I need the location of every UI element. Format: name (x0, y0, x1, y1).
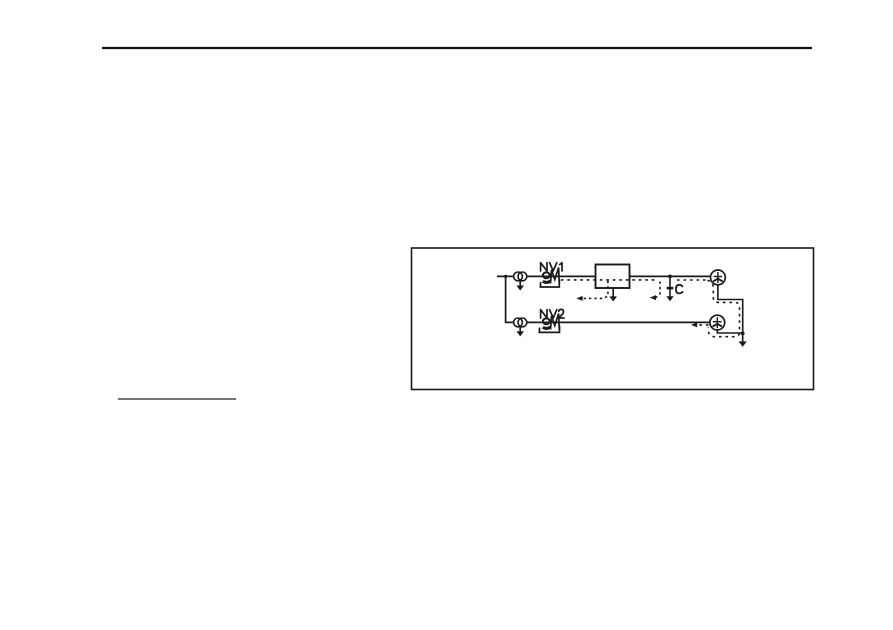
figure frame (412, 248, 814, 390)
label NV1 (541, 263, 562, 271)
wire: top feeder stub (497, 275, 514, 277)
wire: left bus vertical (506, 276, 514, 322)
dashed arrowhead left (cap branch) (650, 295, 656, 300)
dashed branch down inside box (582, 281, 608, 299)
ground arrow under T1 (516, 281, 524, 291)
device box U1 (596, 265, 630, 289)
dashed loop around A1 down right side (708, 280, 740, 336)
dashed branch down before cap (656, 282, 660, 298)
dashed arrowhead left (box branch) (576, 296, 582, 301)
node: earth bus junction (741, 332, 745, 336)
transformer T2 (double circle) (514, 318, 527, 327)
ground arrow earth bus (739, 341, 747, 347)
label NV2 (541, 309, 564, 318)
fuse NV1 scribble (543, 268, 560, 284)
dashed wire cap to A1 (677, 279, 708, 281)
ground arrow under U1 (609, 288, 617, 301)
dashed current path: top row (561, 280, 740, 337)
dashed return on bottom wire (697, 324, 709, 326)
capacitor C (666, 276, 673, 301)
transformer T1 (double circle) (514, 272, 527, 281)
wire: A2 drop to earth bus (717, 330, 742, 333)
node: feeder junction (504, 275, 507, 278)
ground arrow under T2 (516, 327, 524, 337)
page top rule (102, 47, 812, 49)
fuse NV2 holder (open-top box) (539, 325, 559, 332)
arrester A2 (circle) (710, 315, 725, 330)
wire: bottom row NV2 to arrester A2 (527, 321, 710, 323)
wire: A1 drop to earth bus (718, 285, 743, 342)
dashed arrowhead left (bottom return) (691, 322, 697, 327)
wire: box to arrester A1 (630, 275, 711, 277)
wire: top row NV1 to box (527, 275, 596, 277)
node: capacitor tap (668, 275, 672, 279)
label C (676, 285, 683, 294)
arrester A1 (circle) (711, 270, 726, 285)
dashed wire NV1 to cap branch (561, 279, 659, 281)
underline left (118, 398, 236, 400)
fuse NV1 holder (open-top box) (540, 280, 559, 287)
fuse NV2 scribble (543, 314, 560, 330)
